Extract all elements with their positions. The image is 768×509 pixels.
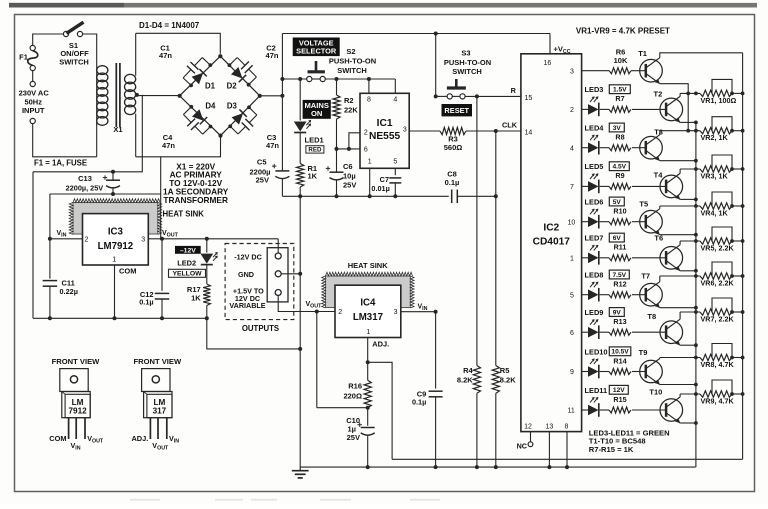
svg-text:1: 1 [570, 255, 574, 262]
node line 4 [660, 205, 700, 207]
wire IC2 pin16 riser [549, 34, 551, 54]
resistor R7 [609, 106, 631, 112]
wire right bus [742, 53, 744, 460]
wire +V rail to S2 [282, 78, 306, 80]
wire T9 collector to node 8 [659, 358, 661, 359]
node line 8 [660, 357, 700, 359]
svg-text:IC1: IC1 [377, 118, 393, 129]
wire R9 to T4 base [632, 185, 666, 187]
led LED10 [588, 366, 599, 377]
svg-text:TRANSFORMER: TRANSFORMER [163, 195, 228, 205]
svg-text:T9: T9 [639, 348, 648, 357]
svg-text:T7: T7 [641, 272, 650, 281]
preset VR1 [700, 90, 732, 96]
capacitor C13 [111, 170, 115, 174]
preset VR6 [700, 273, 732, 279]
resistor R2 [336, 79, 338, 95]
led LED1 [294, 122, 307, 132]
svg-text:RESET: RESET [444, 106, 469, 115]
svg-text:22K: 22K [344, 105, 358, 114]
wire center tap to bridge left corner [137, 95, 180, 97]
label voltage 9V [609, 308, 624, 317]
capacitor C12 [161, 239, 163, 291]
svg-text:YELLOW: YELLOW [172, 271, 202, 278]
fuse F1 [30, 45, 35, 50]
wire secondary top to bridge top [136, 33, 221, 54]
svg-text:R8: R8 [615, 133, 624, 142]
resistor R8 [609, 145, 631, 151]
label voltage 5V [609, 197, 624, 206]
svg-text:R16: R16 [348, 382, 362, 391]
label RED boxed [306, 146, 324, 153]
svg-text:7912: 7912 [68, 407, 87, 416]
svg-text:LED4: LED4 [585, 124, 605, 133]
wire R11 to T6 base [632, 257, 666, 259]
preset VR7 [700, 309, 732, 315]
svg-text:VR1-VR9 = 4.7K PRESET: VR1-VR9 = 4.7K PRESET [576, 26, 670, 35]
wire T1 collector to right bus [660, 53, 743, 58]
terminal 230V input top [30, 81, 35, 86]
svg-text:3: 3 [141, 237, 145, 244]
led LED9 [588, 327, 599, 338]
resistor R11 [609, 255, 631, 261]
wire bridge-bottom drop to C13 line [160, 157, 162, 194]
svg-text:6: 6 [570, 330, 574, 337]
svg-text:NC: NC [517, 441, 527, 450]
svg-text:T5: T5 [639, 199, 648, 208]
transistor T10 [660, 399, 683, 422]
svg-text:2: 2 [338, 309, 342, 316]
svg-text:IC4: IC4 [360, 298, 376, 309]
wire emitter bus [695, 122, 697, 467]
svg-text:LED9: LED9 [585, 308, 604, 317]
svg-text:ADJ.: ADJ. [372, 339, 389, 348]
wire pin2 pin6 node [337, 148, 361, 150]
wire T4 emitter to bus [680, 198, 696, 200]
wire IC3 COM to rail [114, 265, 116, 318]
svg-text:OUTPUTS: OUTPUTS [242, 324, 279, 333]
svg-text:0.1µ: 0.1µ [139, 298, 153, 307]
resistor R10 [609, 219, 631, 225]
transistor T1 [640, 59, 663, 82]
wire R12 to T7 base [632, 294, 645, 296]
wire CLK pulldown to R5 [495, 131, 497, 366]
svg-text:8: 8 [367, 97, 371, 104]
wire IC4 Vin lead [401, 311, 436, 313]
svg-text:LED8: LED8 [585, 271, 604, 280]
label VOLTAGE SELECTOR [293, 38, 340, 57]
wire S2 to IC1 supply rail [325, 78, 395, 80]
bridge arm wires [180, 56, 260, 135]
svg-text:S2: S2 [346, 47, 355, 56]
wire T5 collector to node 4 [659, 206, 661, 209]
node line 6 [660, 275, 700, 277]
wire T8 emitter to bus [680, 344, 696, 346]
wire T3 emitter to bus [660, 160, 696, 162]
svg-text:9V: 9V [613, 309, 622, 316]
wire S1 to transformer primary [83, 34, 97, 66]
rail IC3 section bottom [33, 317, 207, 319]
svg-text:12: 12 [524, 424, 532, 431]
wire secondary bottom rail [136, 137, 221, 157]
svg-text:230V AC: 230V AC [19, 89, 50, 98]
svg-text:4.5V: 4.5V [613, 164, 627, 171]
svg-text:0.01µ: 0.01µ [371, 184, 389, 193]
wire LED1 branch top [299, 79, 301, 121]
wire IC3 Vout line [148, 238, 278, 240]
wire rail jog to ground artery [207, 318, 300, 349]
wire R15 to T10 base [632, 409, 666, 411]
svg-text:6: 6 [364, 146, 368, 153]
svg-text:T10: T10 [649, 388, 662, 397]
svg-text:VR3, 1K: VR3, 1K [701, 171, 729, 180]
ground artery vertical [299, 196, 301, 467]
svg-text:INPUT: INPUT [22, 106, 45, 115]
svg-text:5: 5 [393, 159, 397, 166]
wire IC1 pin1 to ground line [369, 168, 371, 196]
node line 3 [680, 168, 700, 170]
svg-text:T3: T3 [654, 128, 663, 137]
label YELLOW boxed [169, 269, 206, 277]
transistor T3 [640, 136, 663, 159]
transistor T2 [660, 98, 683, 121]
ground symbol [299, 467, 301, 470]
svg-text:25V: 25V [347, 433, 360, 442]
wire pin13 to ground rail [548, 432, 550, 468]
wire R3 to CLK node [466, 130, 521, 132]
capacitor C8 [451, 190, 453, 204]
svg-text:R2: R2 [344, 96, 354, 105]
transformer X1 primary winding [96, 66, 98, 125]
svg-text:C7: C7 [380, 175, 389, 184]
svg-text:SELECTOR: SELECTOR [296, 46, 337, 55]
svg-text:D4: D4 [205, 102, 216, 111]
wire T1 emitter elbow to VR1 [660, 84, 688, 131]
svg-text:1: 1 [112, 257, 116, 264]
svg-text:VR4, 1K: VR4, 1K [701, 208, 729, 217]
capacitor C3 across D3 [228, 124, 232, 128]
wire IC1 pin3 output [409, 130, 440, 132]
label voltage 3V [609, 123, 624, 132]
wire LED5 to R9 [600, 185, 609, 187]
wire S3 supply from +Vcc [435, 34, 437, 97]
diode D1 [192, 73, 204, 85]
node center tap [135, 93, 139, 97]
svg-text:8.2K: 8.2K [500, 376, 516, 385]
svg-text:1K: 1K [308, 172, 318, 181]
svg-text:8.2K: 8.2K [457, 376, 473, 385]
rail main ground [300, 466, 695, 468]
wire T7 collector to node 6 [659, 276, 661, 282]
wire LED8 to R12 [600, 294, 609, 296]
bridge corner junctions [218, 54, 222, 58]
svg-text:LED10: LED10 [585, 347, 608, 356]
svg-text:1: 1 [368, 159, 372, 166]
svg-text:9: 9 [570, 369, 574, 376]
svg-text:F1: F1 [19, 53, 28, 62]
svg-text:3: 3 [403, 126, 407, 133]
label MAINS ON [303, 100, 331, 119]
capacitor C2 across D2 [228, 63, 232, 67]
svg-text:11: 11 [568, 408, 575, 415]
wire LED7 to R11 [600, 257, 609, 259]
resistor R15 [609, 407, 631, 413]
wire reset pulldown to R4 [476, 96, 478, 365]
resistor R3 [440, 127, 466, 134]
wire T6 emitter to bus [680, 270, 696, 272]
svg-text:25V: 25V [256, 175, 269, 184]
svg-text:3V: 3V [613, 125, 622, 132]
wire T4 collector to node 3 [679, 169, 681, 173]
svg-text:13: 13 [546, 424, 554, 431]
svg-text:PUSH-TO-ON: PUSH-TO-ON [444, 58, 491, 67]
wire LED4 to R8 [600, 147, 609, 149]
svg-text:LM317: LM317 [353, 312, 383, 323]
capacitor C5 [275, 170, 289, 172]
svg-text:2: 2 [364, 129, 368, 136]
label voltage 10.5V [609, 347, 631, 356]
wire ground line of 555 section [282, 195, 448, 197]
capacitor C4 across D4 [189, 105, 193, 109]
led LED7 [588, 253, 599, 264]
transistor T5 [640, 210, 663, 233]
label voltage 4.5V [609, 162, 629, 171]
wire left drop to IC3 input [32, 172, 34, 318]
svg-text:10: 10 [568, 219, 576, 226]
svg-text:D2: D2 [227, 82, 238, 91]
led LED2 [206, 239, 208, 253]
svg-text:SWITCH: SWITCH [452, 67, 482, 76]
svg-text:16: 16 [544, 60, 552, 67]
svg-text:–12V: –12V [180, 247, 196, 254]
rail ADJ bus [392, 458, 742, 460]
wire fuse to input terminal [32, 71, 34, 82]
transistor T7 [640, 283, 663, 306]
switch S2 pushbutton [315, 61, 318, 71]
capacitor C9 [435, 312, 437, 389]
svg-text:2: 2 [570, 107, 574, 114]
wire pin8 to ground rail [566, 432, 568, 468]
svg-text:LED6: LED6 [585, 198, 604, 207]
svg-text:VR2, 1K: VR2, 1K [701, 133, 729, 142]
wire LED11 to R15 [600, 409, 609, 411]
wire center tap down to C13 rail [33, 95, 142, 172]
label RESET [442, 104, 473, 116]
svg-text:25V: 25V [343, 181, 356, 190]
wire LED3 to R7 [600, 108, 609, 110]
pin 12 NC stub [530, 432, 532, 442]
svg-text:14: 14 [525, 130, 533, 137]
svg-text:1K: 1K [191, 294, 201, 303]
node line 7 [680, 311, 700, 313]
svg-text:10µ: 10µ [343, 171, 356, 180]
resistor R12 [609, 292, 631, 298]
wire T5 emitter to bus [660, 234, 696, 236]
terminal variable [275, 290, 281, 296]
svg-text:CD4017: CD4017 [533, 236, 571, 247]
led LED8 [588, 289, 599, 300]
node line 5 [680, 240, 700, 242]
wire LED10 to R14 [600, 371, 609, 373]
svg-text:C6: C6 [343, 162, 353, 171]
diode D4 [192, 109, 204, 121]
wire S2 bridge segment [312, 78, 320, 80]
switch S3 pushbutton [455, 79, 458, 87]
label voltage 1.5V [609, 85, 630, 94]
svg-text:4: 4 [570, 145, 574, 152]
svg-text:5V: 5V [613, 199, 622, 206]
preset VR9 [700, 391, 732, 397]
svg-text:6V: 6V [613, 235, 622, 242]
svg-text:D3: D3 [227, 102, 238, 111]
transformer X1 secondary winding [135, 33, 137, 76]
svg-text:C5: C5 [257, 157, 267, 166]
svg-text:IC2: IC2 [543, 223, 559, 234]
wire S3 to IC2 pin15 [452, 95, 460, 97]
wire R13 to T8 base [632, 331, 666, 333]
capacitor C7 [394, 168, 396, 175]
svg-text:T1: T1 [638, 49, 647, 58]
wire LED1 to R1 [299, 132, 301, 163]
preset VR3 [700, 166, 732, 172]
svg-text:15: 15 [525, 95, 533, 102]
svg-text:F1 = 1A, FUSE: F1 = 1A, FUSE [34, 158, 87, 167]
resistor R1 [297, 164, 304, 188]
capacitor C11 [43, 280, 58, 282]
label voltage 12V [609, 385, 628, 394]
svg-text:VR8, 4.7K: VR8, 4.7K [701, 360, 735, 369]
svg-text:R15: R15 [613, 395, 626, 404]
svg-text:ON: ON [311, 109, 322, 118]
regulator IC3 heat sink [73, 203, 158, 235]
transistor T9 [640, 360, 663, 383]
svg-text:R13: R13 [613, 317, 626, 326]
diode D2 [231, 67, 243, 79]
counter IC2 CD4017 box [521, 54, 582, 432]
svg-text:HEAT SINK: HEAT SINK [348, 261, 388, 270]
svg-text:0.1µ: 0.1µ [445, 178, 460, 187]
svg-text:220Ω: 220Ω [343, 391, 362, 400]
svg-text:1: 1 [366, 329, 370, 336]
label voltage 7.5V [609, 270, 629, 279]
preset VR5 [700, 238, 732, 244]
led LED4 [588, 142, 599, 153]
svg-text:10.5V: 10.5V [611, 349, 629, 356]
transistor T6 [660, 246, 683, 269]
wire T10 emitter to ground bus [680, 422, 696, 424]
svg-text:LED1: LED1 [305, 136, 324, 145]
svg-text:VR9, 4.7K: VR9, 4.7K [701, 396, 735, 405]
svg-text:T2: T2 [654, 90, 663, 99]
terminal 230V input bottom [30, 118, 35, 123]
svg-text:47n: 47n [266, 141, 279, 150]
wire R1 to ground line [299, 187, 301, 196]
svg-text:FRONT VIEW: FRONT VIEW [52, 357, 101, 366]
label voltage 6V [609, 233, 624, 242]
resistor R6 [609, 68, 631, 74]
svg-text:R7: R7 [615, 94, 624, 103]
wire T10 collector to node 9 [679, 394, 681, 397]
resistor R4 [473, 366, 480, 394]
led LED11 [588, 405, 599, 416]
wire R14 to T9 base [632, 371, 645, 373]
svg-text:LED3: LED3 [585, 85, 604, 94]
regulator IC4 LM317 box [335, 285, 401, 337]
wire T2 emitter to bus [680, 121, 696, 123]
wire T7 emitter to bus [660, 307, 696, 309]
outputs dashed box [225, 244, 294, 320]
svg-text:2: 2 [85, 237, 89, 244]
resistor R17 [206, 265, 208, 284]
wire T3 collector to node 2 [659, 131, 661, 135]
svg-text:HEAT SINK: HEAT SINK [163, 209, 205, 218]
node line 1 [680, 92, 700, 94]
resistor R5 [492, 366, 499, 394]
wire ADJ jog to preset bus [368, 362, 392, 459]
node line 9 [680, 393, 700, 395]
led LED6 [588, 216, 599, 227]
svg-text:VR7, 2.2K: VR7, 2.2K [701, 314, 735, 323]
svg-text:D1: D1 [205, 82, 216, 91]
wire negative line to C11 top [50, 193, 161, 195]
preset VR4 [700, 203, 732, 209]
capacitor C10 [367, 408, 369, 426]
wire C8 to CLK line [457, 195, 495, 197]
svg-text:47n: 47n [162, 141, 175, 150]
led LED5 [588, 181, 599, 192]
wire IC4 ADJ lead [367, 338, 369, 381]
preset VR8 [700, 354, 732, 360]
svg-text:560Ω: 560Ω [444, 143, 463, 152]
wire R10 to T5 base [632, 221, 645, 223]
svg-text:7: 7 [570, 184, 574, 191]
wire bridge plus corner to riser [260, 95, 283, 97]
label -12V [175, 246, 201, 254]
svg-text:R7-R15 = 1K: R7-R15 = 1K [589, 445, 634, 454]
svg-text:2200µ, 25V: 2200µ, 25V [66, 184, 104, 193]
wire C5 to ground line [281, 179, 283, 196]
regulator IC3 LM7912 box [83, 214, 149, 265]
led LED3 [588, 104, 599, 115]
resistor R14 [609, 369, 631, 375]
svg-text:R4: R4 [463, 366, 473, 375]
caption remnants [130, 499, 440, 501]
wire GND terminal to artery [281, 273, 300, 275]
wire R8 to T3 base [632, 147, 645, 149]
svg-text:5: 5 [570, 292, 574, 299]
svg-text:10K: 10K [614, 56, 628, 65]
resistor R9 [609, 183, 631, 189]
svg-text:SWITCH: SWITCH [59, 58, 89, 67]
svg-text:VR5, 2.2K: VR5, 2.2K [701, 243, 735, 252]
wire input to primary bottom [33, 124, 97, 157]
terminal -12V DC [275, 253, 281, 259]
wire LED6 to R10 [600, 221, 609, 223]
svg-text:SWITCH: SWITCH [337, 66, 367, 75]
op-amp timer IC1 NE555 box [360, 93, 409, 168]
switch S1 [63, 31, 68, 36]
capacitor C6 [336, 149, 338, 173]
outputs terminal block [267, 248, 288, 302]
capacitor C1 across D1 [189, 84, 193, 88]
preset VR2 [700, 128, 732, 134]
svg-text:R11: R11 [614, 243, 627, 252]
svg-text:T4: T4 [654, 171, 664, 180]
resistor R16 [364, 380, 371, 407]
svg-text:LM: LM [72, 398, 84, 407]
wire R7 to T2 base [632, 108, 666, 110]
svg-text:PUSH-TO-ON: PUSH-TO-ON [329, 57, 376, 66]
